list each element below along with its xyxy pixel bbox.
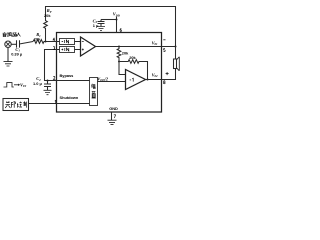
svg-text:Bypass: Bypass: [60, 73, 74, 78]
svg-text:20k: 20k: [44, 13, 51, 18]
svg-text:VIN: VIN: [20, 82, 27, 88]
svg-text:20k: 20k: [129, 55, 136, 60]
svg-text:VDD: VDD: [113, 12, 121, 18]
svg-text:V02: V02: [152, 72, 158, 78]
svg-text:V01: V01: [152, 40, 158, 46]
svg-text:GND: GND: [109, 106, 118, 111]
svg-text:1.0 μ: 1.0 μ: [33, 81, 42, 86]
svg-text:1 μ: 1 μ: [93, 23, 99, 28]
svg-text:20k: 20k: [34, 36, 41, 41]
svg-text:20k: 20k: [122, 50, 129, 55]
svg-text:Shutdown: Shutdown: [60, 95, 79, 100]
svg-text:0.39 μ: 0.39 μ: [11, 51, 23, 56]
svg-text:VDD/2: VDD/2: [97, 76, 109, 82]
